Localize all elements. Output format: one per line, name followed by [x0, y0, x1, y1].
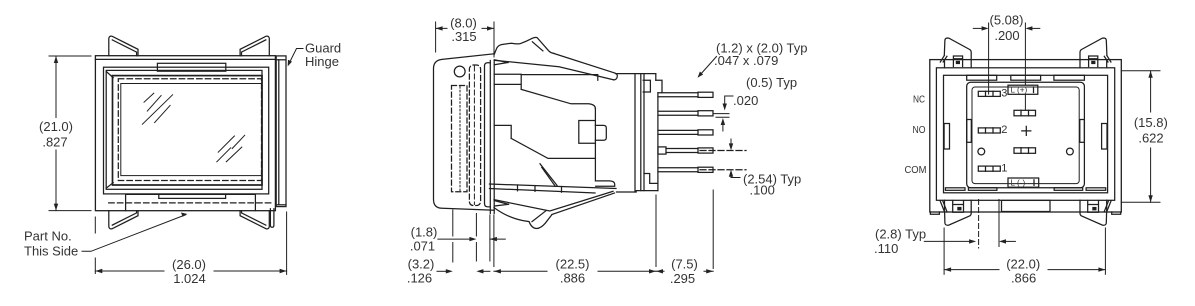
bezel opening top line [521, 75, 598, 81]
lower diagonal pair b [542, 167, 556, 186]
clip top-left barb [953, 56, 962, 67]
svg-text:This Side: This Side [24, 244, 78, 259]
guard hinge flange body [276, 56, 286, 207]
outer rect [930, 60, 1122, 212]
pin5 centerline [700, 169, 746, 171]
paddle wedge b [494, 204, 508, 206]
svg-text:(26.0): (26.0) [172, 257, 206, 272]
clip bottom-right [240, 211, 269, 229]
guard hidden rect B inner dashed [473, 66, 475, 205]
(2.8) leader + arrows [924, 240, 969, 242]
dim (26.0)/1.024 extension left [94, 217, 96, 274]
top shelf bar center [1011, 75, 1041, 80]
top shelf bar left [967, 75, 997, 80]
(5.08) arrows [973, 27, 981, 29]
clip top-right finger [1104, 56, 1111, 62]
clip bottom-left band sides [945, 200, 972, 212]
guard hinge foot hook [270, 209, 274, 228]
guard hinge flange top cap line [276, 59, 286, 61]
guard hidden rect A [452, 86, 468, 192]
L(+) box [1008, 85, 1038, 94]
svg-text:(22.5): (22.5) [556, 257, 590, 272]
L(+) tick [1033, 87, 1035, 93]
body rect [944, 75, 1108, 193]
pivot tab [595, 125, 606, 140]
guard hinge flange inner line [278, 60, 280, 205]
rocker top wedge lower [494, 60, 614, 80]
rear bottom-left corner foot [930, 212, 939, 214]
chamfer top-left [106, 72, 113, 78]
rear bottom-right corner foot [1112, 212, 1121, 214]
arrow right [280, 269, 287, 273]
clip top-left finger [940, 56, 947, 62]
clip top-right [240, 36, 269, 56]
clip top-left body [944, 38, 971, 60]
outer bezel rect A [95, 56, 275, 211]
L(-) box [1008, 178, 1039, 187]
paddle top edge [494, 191, 613, 211]
lamp slot lower [1014, 148, 1036, 154]
body rear step [656, 80, 662, 93]
svg-text:(5.08): (5.08) [990, 13, 1024, 28]
(15.8) dim line [1150, 71, 1152, 203]
clip bottom-left barb [953, 201, 964, 213]
lower chevron [511, 138, 595, 158]
inner border rect [936, 68, 1114, 201]
bottom tooth far-left [945, 188, 965, 191]
svg-text:L (-): L (-) [1011, 179, 1026, 188]
pin 1 [658, 92, 713, 97]
bar tick 1 [517, 185, 519, 191]
rocker right edge [594, 109, 596, 181]
paddle underside [494, 208, 552, 229]
svg-text:(7.5): (7.5) [671, 257, 698, 272]
dim line horizontal [95, 270, 286, 272]
(3.2) arrows [437, 270, 446, 272]
dim extension right [286, 212, 288, 274]
body ear bottom [644, 174, 658, 184]
clip bottom-left barb square [957, 207, 961, 211]
bottom latch outer [126, 194, 256, 210]
guard hinge flange bottom cap line [276, 204, 286, 206]
clip top-right barb square [1091, 61, 1095, 64]
ext right [493, 22, 495, 57]
guide hole left [978, 148, 985, 155]
arrow up [54, 56, 58, 63]
center cross [1022, 126, 1031, 135]
guard flange rect C [106, 70, 262, 189]
guard hidden rect B [469, 65, 480, 206]
body slot left [944, 124, 949, 150]
bottom center block [1002, 200, 1051, 211]
lamp slot upper [1014, 110, 1036, 116]
clip bottom-left inner line [112, 211, 136, 225]
terminal slot 1 [978, 166, 1000, 171]
body ear top [643, 80, 650, 92]
body inner wall [643, 74, 645, 191]
bottom ext lines [452, 210, 454, 262]
(0.5) up arrow [722, 125, 724, 131]
bar tick 3 [561, 187, 563, 193]
clip bottom-right body [1080, 212, 1107, 225]
clip top-left inner line [112, 40, 136, 56]
arrow down [54, 204, 58, 211]
pin 5 [658, 167, 713, 172]
hinge knuckle [494, 37, 553, 54]
(5.08) ext lines [988, 23, 990, 94]
body slot right [1102, 124, 1107, 150]
svg-text:Hinge: Hinge [305, 54, 339, 69]
bezel bottom bar line1 [490, 184, 617, 189]
bezel top small wedge a [494, 60, 508, 63]
clip top-right band sides [1080, 60, 1107, 68]
rocker top wedge upper [554, 53, 618, 80]
bezel top step rect [494, 74, 521, 89]
body rear face full [657, 93, 659, 191]
svg-text:(15.8): (15.8) [1134, 115, 1168, 130]
glass pane [121, 84, 262, 176]
rounded panel inner [972, 87, 1079, 184]
clip bottom-right barb square [1092, 207, 1096, 211]
dim extension bottom [49, 210, 91, 212]
dim (21.0)/.827 extension top [49, 55, 91, 57]
pin 4 [658, 147, 713, 154]
clip bottom-right barb [1088, 201, 1099, 213]
clip bottom-right band sides [1080, 200, 1107, 212]
clip bottom-left body [945, 212, 972, 225]
clip top-left barb square [956, 61, 960, 64]
body front face inner [640, 74, 642, 191]
bottom tooth right [1054, 188, 1083, 191]
svg-text:.295: .295 [670, 271, 695, 286]
svg-text:(21.0): (21.0) [39, 119, 73, 134]
(22.0) ext lines [943, 228, 945, 274]
svg-text:3: 3 [1001, 88, 1007, 100]
chamfer bottom-left [106, 183, 113, 188]
(15.8) ext lines [1121, 70, 1160, 72]
svg-text:.315: .315 [451, 29, 476, 44]
rounded panel [967, 82, 1085, 188]
bezel top small wedge b [494, 63, 508, 65]
panel edge slot right [1080, 120, 1085, 143]
clip bottom-right inner line [242, 211, 266, 225]
svg-text:.866: .866 [1011, 271, 1036, 286]
pin4 centerline [700, 150, 746, 152]
svg-text:Part No.: Part No. [24, 229, 72, 244]
svg-text:.047 x .079: .047 x .079 [714, 53, 778, 68]
(2.54) bracket + up arrow [731, 176, 740, 178]
inner bezel rect B [104, 67, 269, 194]
svg-text:.020: .020 [733, 93, 758, 108]
svg-text:(2.8) Typ: (2.8) Typ [875, 227, 926, 242]
top shelf bar right [1054, 75, 1085, 80]
svg-text:(0.5) Typ: (0.5) Typ [746, 75, 797, 90]
svg-text:.622: .622 [1138, 131, 1163, 146]
bezel lower step [494, 125, 511, 138]
paddle wedge a [494, 201, 508, 205]
guard window frame D [113, 76, 263, 185]
svg-text:.110: .110 [874, 241, 898, 256]
paddle accent line [532, 211, 546, 222]
guard inner wall solid [485, 63, 491, 207]
svg-text:1: 1 [1001, 162, 1007, 174]
bezel front face line 2 [493, 61, 495, 214]
arrow right [487, 26, 494, 30]
rocker bottom foot [596, 181, 615, 186]
clip top-left band sides [945, 60, 972, 68]
pin2 edge extensions [714, 114, 729, 118]
body front face [634, 74, 636, 192]
guard cover outline [434, 54, 495, 210]
svg-text:.886: .886 [560, 271, 585, 286]
bezel inner top line [95, 58, 275, 60]
bottom tooth left [968, 188, 997, 191]
clip top-left [109, 36, 138, 56]
(22.5) dim line [494, 270, 656, 272]
terminal slot 2 [978, 128, 1000, 133]
svg-text:(22.0): (22.0) [1006, 257, 1040, 272]
(2.8) ext dashed [978, 200, 980, 249]
clip top-right inner line [242, 40, 266, 56]
dim (8.0)/.315 ext left [435, 22, 437, 52]
body top line [616, 73, 656, 75]
glass hatch group 1 [142, 93, 172, 124]
svg-text:2: 2 [1001, 124, 1007, 136]
svg-text:NO: NO [913, 124, 926, 136]
svg-text:.100: .100 [750, 183, 775, 198]
svg-text:.071: .071 [410, 239, 435, 254]
guard hinge leader [289, 49, 303, 64]
svg-text:NC: NC [913, 94, 925, 106]
hidden dashed line bottom [109, 202, 272, 204]
guide hole right [1067, 148, 1074, 155]
svg-text:(1.8): (1.8) [411, 225, 438, 240]
guard pivot hole [454, 66, 465, 77]
L(-) tick [1033, 180, 1035, 186]
leader (0.5) bracket [725, 96, 733, 104]
pivot boss [579, 121, 596, 144]
(7.5) dim line [656, 270, 713, 272]
bezel bottom bar line2 [490, 189, 596, 194]
part no leader [82, 215, 186, 252]
upper chevron [521, 89, 595, 108]
body bottom [617, 191, 658, 192]
svg-text:(3.2): (3.2) [408, 257, 435, 272]
bottom latch grip [159, 194, 226, 198]
panel edge slot left [967, 120, 972, 143]
clip top-right barb [1089, 56, 1098, 67]
(22.0) dim line [944, 269, 1105, 271]
terminal slot 3 [978, 91, 1000, 96]
bezel front face line 1 [489, 61, 491, 214]
hinge knuckle inner line [532, 42, 543, 51]
dim line vertical [55, 56, 57, 211]
svg-text:.200: .200 [994, 28, 1019, 43]
body rear face [655, 74, 657, 81]
arrow left [95, 269, 102, 273]
lower diagonal pair a [540, 164, 557, 186]
guard hidden rect A divider dotted [459, 87, 461, 192]
(2.54) down arrow [730, 139, 732, 144]
svg-text:.827: .827 [42, 135, 67, 150]
clip bottom-left finger [940, 201, 947, 213]
svg-text:L (+): L (+) [1011, 86, 1028, 95]
dim line [436, 27, 494, 29]
(1.8) leader line + arrows [438, 238, 470, 240]
pin 3 [658, 130, 713, 135]
leader (1.2)x(2.0) [700, 57, 717, 76]
bar tick 2 [534, 186, 536, 192]
glass hatch group 2 [217, 135, 245, 162]
clip top-right body [1080, 38, 1107, 60]
top hinge bar [157, 63, 225, 71]
svg-text:1.024: 1.024 [173, 271, 206, 286]
arrow left [436, 26, 443, 30]
pin 2 [658, 111, 713, 116]
paddle tail lower line [552, 193, 615, 215]
svg-text:.126: .126 [407, 271, 432, 286]
clip bottom-left [109, 211, 138, 229]
bottom tooth far-right [1086, 188, 1106, 191]
svg-text:COM: COM [905, 164, 927, 176]
clip bottom-right finger [1104, 201, 1111, 213]
hidden dashed opening [118, 79, 261, 181]
